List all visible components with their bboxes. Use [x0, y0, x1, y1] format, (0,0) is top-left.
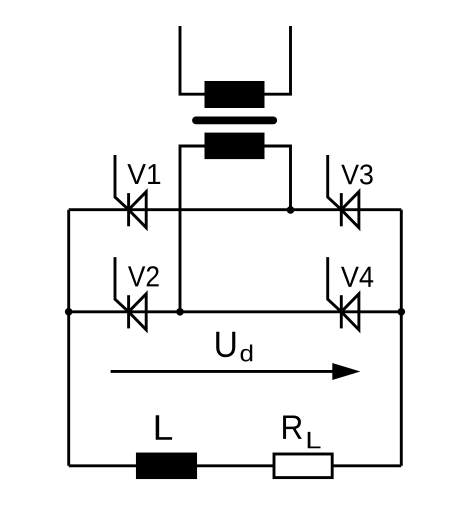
label RL-L	[308, 432, 321, 448]
wire secondary left lead	[180, 146, 205, 312]
label Ud-U	[216, 332, 235, 357]
wire left rail	[67, 210, 70, 466]
thyristor V3	[328, 155, 359, 228]
label V4	[341, 267, 373, 287]
label V2	[128, 266, 159, 286]
wire bottom bus	[69, 310, 402, 313]
transformer T1 core	[196, 117, 273, 125]
node junction dot secondary right lead / top bus	[287, 206, 295, 214]
thyristor V4	[328, 257, 359, 330]
label Ud-d	[241, 345, 253, 362]
wire right rail	[400, 210, 403, 466]
label RL-R	[283, 415, 302, 438]
thyristor V1	[115, 155, 146, 228]
label V1	[127, 164, 160, 184]
transformer T1 secondary winding	[205, 133, 265, 160]
node junction dot right rail / bottom bus	[398, 308, 406, 316]
wire secondary right lead	[265, 146, 291, 210]
label V3	[341, 164, 372, 184]
wire bottom load line	[69, 464, 402, 467]
node junction dot left rail / bottom bus	[65, 308, 73, 316]
transformer T1 primary winding	[205, 81, 265, 108]
label L	[156, 415, 172, 440]
node junction dot secondary left lead / bottom bus	[176, 308, 184, 316]
inductor L	[137, 454, 195, 478]
thyristor V2	[115, 257, 146, 330]
resistor RL	[274, 454, 332, 478]
wire top bus	[69, 208, 402, 211]
wire primary right lead	[265, 26, 291, 94]
wire primary left lead	[180, 26, 205, 94]
arrow Ud	[111, 370, 333, 373]
